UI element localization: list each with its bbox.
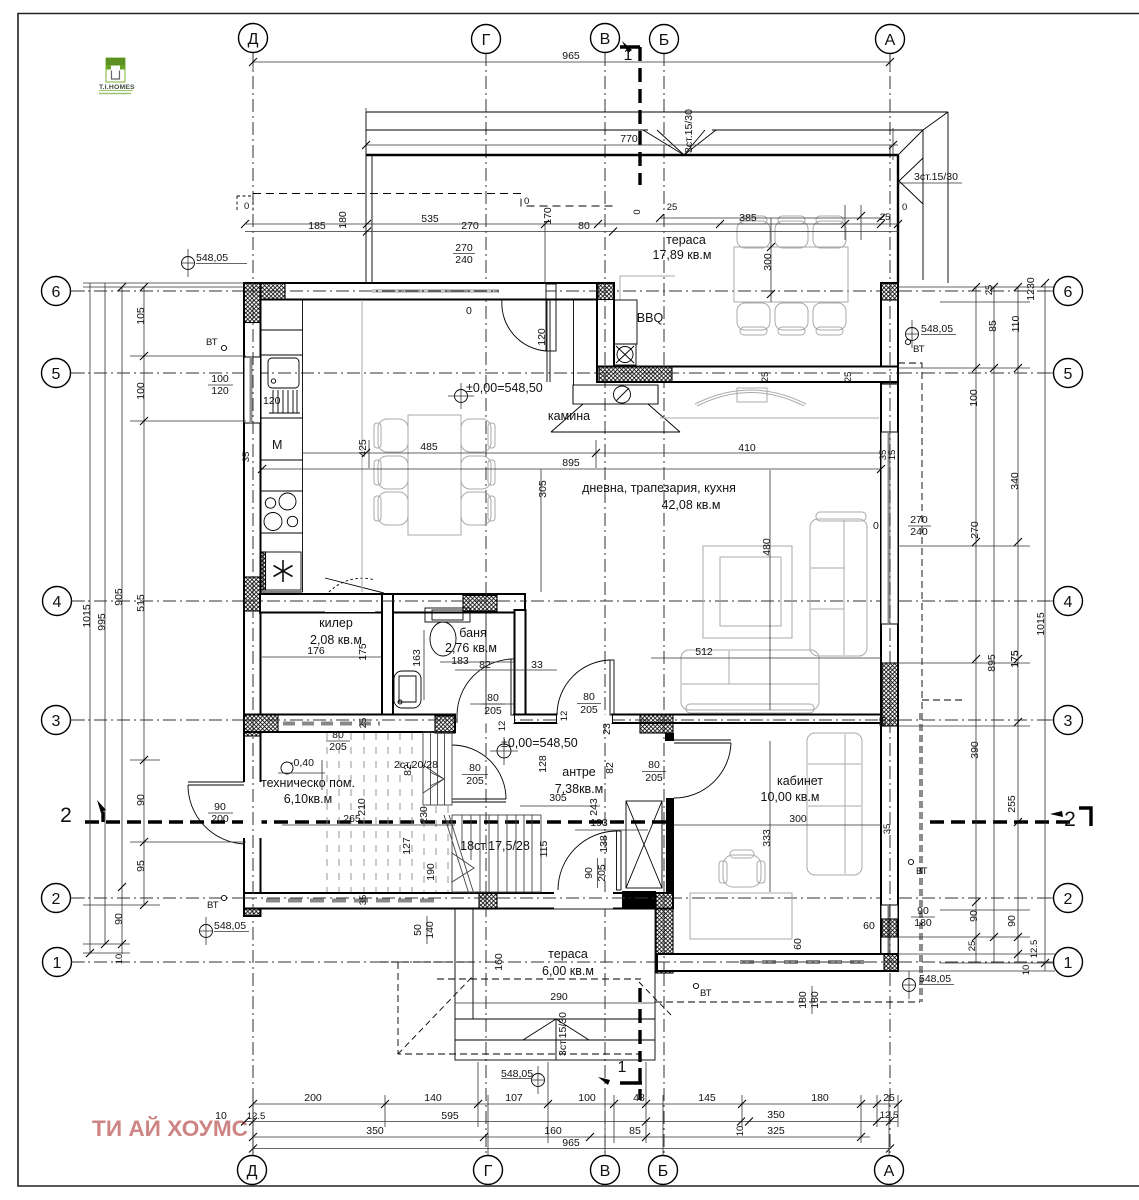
svg-text:А: А [884, 1163, 895, 1180]
svg-text:35: 35 [878, 717, 889, 728]
svg-text:115: 115 [538, 840, 550, 857]
svg-text:T.I.HOMES: T.I.HOMES [99, 84, 135, 91]
dining table [362, 300, 495, 592]
door antre/living (in row3 wall) [557, 715, 612, 724]
door banya (in row3 wall) [457, 715, 514, 724]
svg-text:100: 100 [968, 389, 980, 407]
svg-text:240: 240 [455, 254, 473, 266]
interior dims labels [278, 202, 1021, 1056]
svg-text:25: 25 [760, 372, 771, 383]
glazing window top wall [372, 290, 499, 293]
svg-text:25: 25 [967, 941, 978, 952]
svg-text:5: 5 [1064, 366, 1073, 383]
svg-text:895: 895 [562, 457, 580, 469]
svg-text:205: 205 [466, 775, 484, 787]
svg-text:25: 25 [843, 372, 854, 383]
svg-text:107: 107 [505, 1092, 523, 1104]
svg-text:183: 183 [451, 655, 469, 667]
svg-text:180: 180 [811, 1092, 829, 1104]
right extension horizontals [898, 286, 1055, 288]
dishwasher asterisk [263, 552, 301, 590]
svg-text:205: 205 [329, 741, 347, 753]
bbq chimney square [614, 344, 636, 365]
svg-text:90: 90 [917, 905, 929, 917]
svg-text:35: 35 [358, 895, 369, 906]
wash basin [394, 671, 421, 708]
svg-text:175: 175 [357, 643, 369, 661]
axis A vertical [889, 53, 891, 1155]
svg-text:110: 110 [1010, 315, 1022, 332]
svg-text:80: 80 [332, 729, 344, 741]
svg-text:12.5: 12.5 [247, 1111, 266, 1122]
svg-text:2,76 кв.м: 2,76 кв.м [445, 641, 497, 655]
bbq counter [614, 300, 637, 344]
axis 2 horizontal [71, 897, 1052, 899]
svg-text:205: 205 [645, 772, 663, 784]
right wall lower window 90/180 [881, 905, 898, 954]
svg-text:190: 190 [425, 863, 437, 881]
svg-text:25: 25 [358, 718, 369, 729]
svg-text:0: 0 [873, 520, 879, 532]
svg-text:350: 350 [767, 1109, 785, 1121]
small flight 2 steps [423, 732, 452, 805]
svg-text:42,08 кв.м: 42,08 кв.м [662, 498, 721, 512]
svg-text:80: 80 [583, 691, 595, 703]
svg-text:3: 3 [52, 713, 61, 730]
svg-text:548,05: 548,05 [919, 973, 951, 985]
hatch blocks left wall [244, 577, 261, 611]
svg-text:Д: Д [248, 31, 259, 48]
svg-text:3ст.15/30: 3ст.15/30 [683, 109, 695, 153]
svg-text:770: 770 [620, 133, 638, 145]
svg-text:ВТ: ВТ [206, 337, 218, 348]
svg-text:90: 90 [1006, 915, 1018, 927]
svg-text:120: 120 [536, 328, 548, 346]
svg-text:325: 325 [767, 1125, 785, 1137]
svg-text:265: 265 [343, 813, 361, 825]
svg-text:±0,00=548,50: ±0,00=548,50 [466, 381, 543, 395]
svg-text:180: 180 [337, 211, 349, 229]
kitchen counter [302, 300, 304, 593]
svg-text:905: 905 [113, 588, 125, 606]
svg-text:140: 140 [424, 921, 436, 939]
hatch row6/A corner [881, 283, 898, 300]
tick marks [86, 58, 1049, 1153]
80/205 line banya door [470, 703, 514, 705]
svg-text:2: 2 [1064, 808, 1076, 831]
svg-text:6: 6 [52, 284, 61, 301]
svg-text:170: 170 [542, 207, 554, 225]
svg-text:25: 25 [667, 202, 678, 213]
svg-text:300: 300 [762, 253, 774, 271]
svg-text:-0,40: -0,40 [290, 757, 314, 769]
living 512 [651, 657, 881, 659]
terrace paving edge gray [620, 276, 675, 300]
svg-text:10,00 кв.м: 10,00 кв.м [761, 790, 820, 804]
logo T.I.HOMES [99, 58, 135, 94]
dashed ceiling lines tehnichesko [327, 733, 448, 892]
svg-text:33: 33 [531, 659, 543, 671]
svg-text:антре: антре [562, 765, 596, 779]
svg-text:В: В [600, 31, 611, 48]
svg-text:270: 270 [455, 242, 473, 254]
interior dim 485 [302, 452, 881, 454]
sink [268, 358, 299, 388]
svg-text:15: 15 [887, 450, 898, 461]
548.05 markers [181, 249, 956, 1094]
axis 1 horizontal [71, 961, 1052, 963]
svg-text:230: 230 [418, 806, 430, 824]
svg-text:техническо пом.: техническо пом. [261, 776, 355, 790]
row3 wall band right part (kabinet top) [612, 715, 881, 724]
dish rack [269, 390, 300, 413]
svg-text:5: 5 [52, 366, 61, 383]
axis 6 horizontal [71, 290, 1052, 292]
sliding door arc living [695, 390, 806, 404]
svg-text:180: 180 [809, 991, 821, 1009]
svg-text:±0,00=548,50: ±0,00=548,50 [501, 736, 578, 750]
svg-text:Г: Г [484, 1163, 493, 1180]
svg-text:1: 1 [1064, 955, 1073, 972]
axis V vertical [604, 53, 606, 1155]
dashed roof outline bottom terrace [398, 962, 641, 1054]
top small verticals from circles [252, 53, 254, 70]
svg-text:95: 95 [135, 860, 147, 872]
svg-text:2ст.20/28: 2ст.20/28 [394, 759, 438, 771]
svg-text:305: 305 [549, 792, 567, 804]
svg-text:390: 390 [969, 741, 981, 759]
left wall x244-260 [244, 283, 261, 916]
svg-text:0: 0 [524, 196, 529, 207]
svg-text:90: 90 [214, 801, 226, 813]
svg-text:дневна, трапезария, кухня: дневна, трапезария, кухня [582, 481, 736, 495]
svg-text:80: 80 [487, 692, 499, 704]
interior dim 305 vertical [540, 469, 542, 592]
wc tank [425, 608, 470, 622]
short connectors circles to axes [70, 291, 1053, 1155]
axis overlays over walls [244, 283, 898, 971]
svg-text:160: 160 [493, 953, 505, 971]
row3 wall band left part [244, 715, 455, 733]
svg-text:0: 0 [902, 202, 907, 213]
svg-text:ВТ: ВТ [916, 866, 928, 877]
svg-text:10: 10 [735, 1126, 746, 1137]
svg-text:3: 3 [1064, 713, 1073, 730]
svg-text:12.5: 12.5 [1029, 940, 1040, 959]
hatch row6 near V axis [598, 283, 614, 300]
terrace table + chairs [734, 216, 848, 335]
roof overhang lines top [366, 111, 948, 113]
svg-text:6: 6 [1064, 284, 1073, 301]
right chains vertical [975, 287, 977, 963]
right wall x881-898 [881, 283, 898, 971]
dashed roof outline right side [898, 363, 922, 1002]
svg-text:BBQ: BBQ [637, 311, 664, 325]
VT markers [206, 337, 928, 999]
svg-text:Д: Д [247, 1163, 258, 1180]
svg-text:2: 2 [1064, 891, 1073, 908]
svg-text:548,05: 548,05 [196, 252, 228, 264]
svg-text:6,00 кв.м: 6,00 кв.м [542, 964, 594, 978]
kabinet 300 [674, 824, 881, 826]
svg-text:350: 350 [366, 1125, 384, 1137]
axis 4 horizontal [71, 600, 1052, 602]
svg-text:А: А [885, 32, 896, 49]
svg-text:300: 300 [789, 813, 807, 825]
bottom extension verticals [252, 1095, 254, 1155]
svg-text:ВТ: ВТ [700, 988, 712, 999]
svg-text:Б: Б [658, 1163, 669, 1180]
svg-text:1: 1 [618, 1059, 627, 1076]
svg-text:90: 90 [135, 794, 147, 806]
svg-text:270: 270 [461, 220, 479, 232]
svg-text:12: 12 [559, 711, 570, 722]
top chain 770 [366, 144, 898, 146]
row4 wall band (kitchen/kiler/bathroom) [260, 594, 525, 613]
svg-text:48: 48 [633, 1092, 645, 1104]
svg-text:85: 85 [629, 1125, 641, 1137]
axis 3 horizontal [71, 719, 1052, 721]
svg-text:205: 205 [484, 705, 502, 717]
axis D vertical [252, 53, 254, 1155]
antre 193 [575, 829, 648, 831]
svg-text:595: 595 [441, 1110, 459, 1122]
svg-text:Б: Б [659, 32, 670, 49]
svg-text:камина: камина [548, 409, 590, 423]
left extension horizontals [83, 286, 244, 288]
banya 183 [440, 661, 514, 663]
svg-text:895: 895 [986, 654, 998, 672]
svg-text:512: 512 [695, 646, 713, 658]
svg-text:270: 270 [969, 521, 981, 539]
svg-text:160: 160 [544, 1125, 562, 1137]
door top wall (terrace entry) [499, 284, 546, 299]
svg-text:385: 385 [739, 212, 757, 224]
svg-text:90: 90 [113, 913, 125, 925]
terrace south slab + steps [455, 909, 655, 1060]
svg-text:175: 175 [1009, 650, 1021, 668]
svg-text:17,89 кв.м: 17,89 кв.м [653, 248, 712, 262]
svg-text:200: 200 [211, 813, 229, 825]
wc bowl [430, 622, 456, 656]
svg-text:6,10кв.м: 6,10кв.м [284, 792, 333, 806]
svg-text:баня: баня [459, 626, 487, 640]
svg-text:965: 965 [562, 1137, 580, 1149]
hatch column antre/terrace corner [656, 893, 673, 973]
hatch corner row6/D [244, 283, 285, 300]
svg-text:100: 100 [211, 373, 229, 385]
kiler door opening row4 [325, 595, 375, 612]
svg-text:90: 90 [583, 867, 595, 879]
svg-text:1015: 1015 [1035, 612, 1047, 636]
antre 305 [520, 805, 600, 807]
wall x597-614 left of BBQ terrace [597, 283, 614, 382]
82/33 line [455, 669, 557, 671]
svg-text:тераса: тераса [666, 233, 706, 247]
svg-text:23: 23 [601, 723, 613, 735]
hatch blocks right wall [882, 369, 898, 384]
top extension verticals [544, 224, 546, 283]
kabinet bottom wall [657, 954, 898, 971]
svg-text:35: 35 [241, 452, 252, 463]
top wall row6 band [244, 283, 614, 300]
kabinet furniture [690, 733, 862, 939]
svg-text:548,05: 548,05 [214, 920, 246, 932]
svg-text:105: 105 [135, 307, 147, 325]
kiler 176 [262, 656, 382, 658]
fireplace kamina [573, 385, 658, 404]
svg-text:127: 127 [401, 837, 413, 855]
row3 wall band mid (under banya door) [514, 715, 557, 724]
stove 4 burners [279, 493, 296, 510]
svg-text:0: 0 [244, 201, 249, 212]
svg-text:килер: килер [319, 616, 353, 630]
interior dim 385/300 terrace [660, 217, 881, 219]
svg-text:290: 290 [550, 991, 568, 1003]
bottom chain labels [215, 1092, 898, 1149]
antre/kabinet wall vertical [666, 798, 674, 892]
svg-text:425: 425 [357, 439, 369, 457]
svg-text:12: 12 [497, 721, 508, 732]
banya right wall [515, 610, 526, 717]
svg-text:3ст.15/30: 3ст.15/30 [914, 171, 958, 183]
section line 2-2 horizontal [85, 820, 674, 823]
svg-text:100: 100 [578, 1092, 596, 1104]
axis 5 horizontal [71, 372, 1052, 374]
svg-text:965: 965 [562, 50, 580, 62]
row2 wall band [244, 893, 673, 909]
svg-text:138: 138 [598, 835, 610, 853]
svg-text:10: 10 [1021, 965, 1032, 976]
svg-text:ВТ: ВТ [207, 900, 219, 911]
door antre/kabinet (vertical wall) [674, 739, 731, 741]
svg-text:200: 200 [304, 1092, 322, 1104]
svg-text:85: 85 [987, 320, 999, 332]
svg-text:35: 35 [882, 824, 893, 835]
living 480 vertical [769, 470, 771, 710]
door entrance south (row2 wall) [617, 831, 622, 890]
svg-text:255: 255 [1006, 795, 1018, 813]
svg-text:548,05: 548,05 [921, 323, 953, 335]
svg-text:80: 80 [578, 220, 590, 232]
svg-text:128: 128 [537, 755, 549, 773]
svg-text:1: 1 [624, 47, 633, 64]
left chains vertical [89, 283, 91, 953]
main stair 18 steps [444, 815, 541, 894]
living sofas + coffee table [681, 512, 867, 713]
banya 163 vertical [423, 630, 425, 700]
svg-text:515: 515 [135, 594, 147, 612]
svg-text:243: 243 [588, 798, 600, 816]
svg-text:193: 193 [590, 817, 608, 829]
svg-text:100: 100 [135, 382, 147, 400]
right wall big window [881, 432, 898, 624]
kabinet 333 vertical [769, 741, 771, 892]
svg-text:205: 205 [580, 704, 598, 716]
section line 1-1 bottom [638, 988, 641, 1062]
left wall window 100/120 [244, 357, 261, 423]
svg-text:25: 25 [984, 285, 995, 296]
tehnichesko 265 [282, 824, 455, 826]
top chain row B [245, 231, 898, 233]
svg-text:1: 1 [53, 955, 62, 972]
svg-text:410: 410 [738, 442, 756, 454]
svg-text:тераса: тераса [548, 947, 588, 961]
bottom chains [253, 1103, 898, 1105]
top chain 965 [253, 61, 890, 63]
svg-text:ВТ: ВТ [913, 344, 925, 355]
svg-text:333: 333 [761, 829, 773, 847]
banya left wall [382, 594, 393, 717]
door in stair partition 80/205 [452, 798, 506, 800]
svg-text:82: 82 [479, 659, 491, 671]
re-draw hatches over walls (z-order) [244, 283, 261, 323]
svg-text:140: 140 [424, 1092, 442, 1104]
section line 1-1 top [638, 47, 641, 185]
door left wall (tehnichesko exterior) [188, 781, 244, 783]
svg-text:25: 25 [880, 212, 891, 223]
dashed 0-line left of terrace [237, 196, 253, 212]
svg-text:180: 180 [914, 917, 932, 929]
svg-text:1015: 1015 [81, 604, 93, 628]
svg-text:90: 90 [968, 910, 980, 922]
thin jamb line down from door [546, 299, 548, 382]
svg-text:2: 2 [60, 804, 72, 827]
svg-text:4: 4 [1064, 594, 1073, 611]
row5 wall band terrace/living [597, 367, 898, 383]
svg-text:145: 145 [698, 1092, 716, 1104]
axis B vertical [663, 53, 665, 1155]
svg-text:82: 82 [402, 764, 414, 776]
svg-text:18ст.17,5/28: 18ст.17,5/28 [460, 839, 530, 853]
left wall door opening 90/200 [243, 782, 262, 838]
svg-text:Г: Г [482, 32, 491, 49]
svg-text:60: 60 [792, 938, 804, 950]
svg-text:485: 485 [420, 441, 438, 453]
svg-text:10: 10 [114, 954, 125, 965]
svg-text:50: 50 [412, 924, 424, 936]
svg-text:163: 163 [411, 649, 423, 667]
svg-text:305: 305 [537, 480, 549, 498]
svg-text:480: 480 [761, 538, 773, 556]
svg-text:4: 4 [53, 594, 62, 611]
svg-text:0: 0 [632, 209, 643, 214]
svg-text:2: 2 [52, 891, 61, 908]
axis G vertical [485, 53, 487, 1155]
svg-text:240: 240 [910, 526, 928, 538]
svg-text:995: 995 [96, 613, 108, 631]
entry steps V mark top [643, 130, 716, 155]
svg-text:120: 120 [211, 385, 229, 397]
svg-text:535: 535 [421, 213, 439, 225]
svg-text:0: 0 [466, 305, 472, 317]
svg-text:80: 80 [648, 759, 660, 771]
svg-text:80: 80 [469, 762, 481, 774]
interior dim 895 [262, 468, 881, 470]
svg-text:1230: 1230 [1025, 277, 1037, 301]
svg-text:82: 82 [604, 762, 616, 774]
svg-text:120: 120 [263, 395, 281, 407]
svg-text:270: 270 [910, 514, 928, 526]
svg-text:185: 185 [308, 220, 326, 232]
svg-text:3ст.15/30: 3ст.15/30 [557, 1012, 569, 1056]
svg-text:10: 10 [215, 1110, 227, 1122]
svg-text:М: М [272, 438, 282, 452]
svg-text:В: В [600, 1163, 611, 1180]
top chain row A [245, 223, 898, 225]
svg-text:60: 60 [863, 920, 875, 932]
svg-text:176: 176 [307, 645, 325, 657]
